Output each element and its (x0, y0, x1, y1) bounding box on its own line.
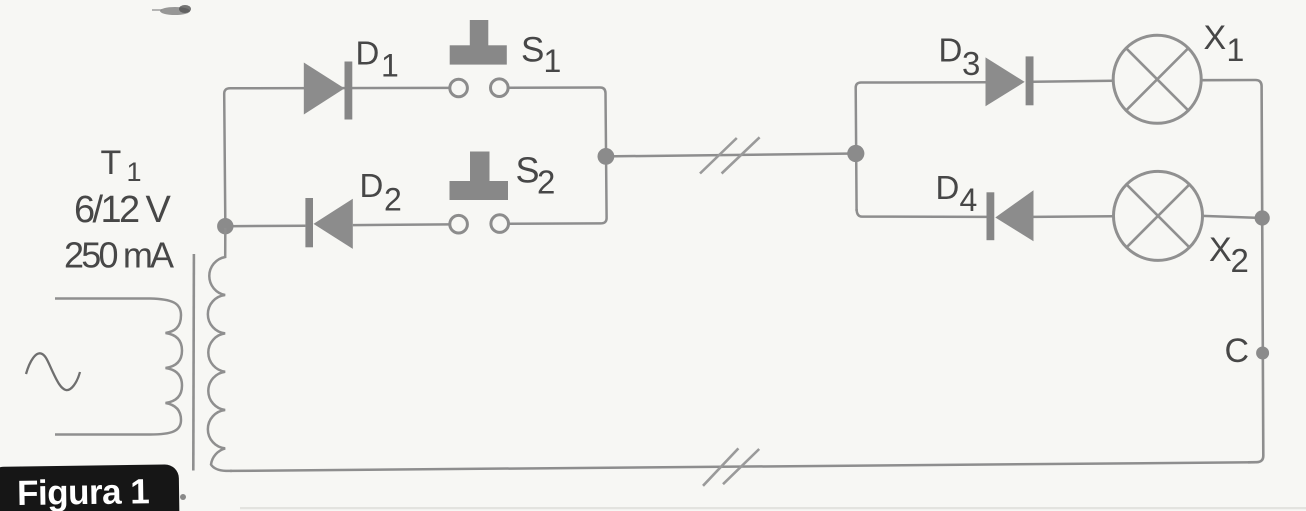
scan speck near badge (180, 494, 186, 500)
switch S1 contacts (450, 79, 508, 97)
node C terminal (1256, 347, 1269, 360)
cable break marks top (700, 137, 760, 173)
transformer core (192, 254, 195, 471)
label S2 (516, 150, 556, 201)
wire: lamp X2 to right rail junction (1203, 216, 1263, 218)
label X2 (1209, 231, 1249, 279)
node: line to lamps junction (847, 145, 864, 162)
label T1 (101, 144, 142, 187)
diode D1 (304, 62, 353, 120)
label D1 (356, 35, 399, 84)
svg-text:X: X (1209, 231, 1232, 269)
svg-text:6/12 V: 6/12 V (74, 189, 172, 231)
svg-text:1: 1 (127, 157, 142, 187)
cable break marks bottom (703, 448, 759, 485)
svg-text:D: D (939, 32, 963, 69)
wire: S1 right contact, right vertical of switch loop, S2 right side (509, 87, 607, 223)
svg-text:1: 1 (544, 43, 562, 79)
svg-text:D: D (360, 167, 384, 204)
AC sine symbol (26, 353, 80, 390)
node: switch output junction (598, 148, 615, 165)
wire: bottom rail with cable break (230, 462, 1256, 471)
svg-text:C: C (1225, 332, 1250, 370)
diode D3 (986, 56, 1034, 106)
wire: D2 anode to S2 left contact (353, 223, 450, 226)
label S1 (521, 31, 561, 80)
svg-text:X: X (1204, 19, 1227, 57)
switch S2 contacts (450, 215, 509, 233)
wire: junction to D2 cathode (225, 224, 305, 227)
transformer secondary winding (208, 228, 232, 471)
label D3 (939, 32, 981, 83)
svg-text:D: D (936, 169, 960, 206)
wire: secondary top vertical and top rail to S1 left contact (224, 88, 449, 222)
switch S1 button (450, 20, 507, 65)
label D2 (360, 167, 402, 218)
label X1 (1204, 19, 1245, 68)
svg-text:1: 1 (1227, 32, 1245, 68)
svg-text:4: 4 (960, 182, 978, 218)
wire: lamp X1 to right rail and right vertical rail down to bottom (1201, 80, 1263, 462)
node: X2 to rail junction (1255, 210, 1270, 225)
bottom scan edge streak (240, 507, 1306, 509)
diode D2 (305, 198, 352, 249)
lamp X1 (1113, 35, 1201, 123)
svg-text:3: 3 (962, 45, 980, 82)
diode D4 (987, 190, 1034, 241)
wire: D-column vertical and stub to D3 (856, 82, 986, 211)
switch S2 button (450, 152, 509, 201)
svg-text:Figura 1: Figura 1 (17, 472, 150, 511)
wire: D-column bottom corner to D4 cathode (857, 209, 987, 217)
wire: D4 anode to lamp X2 (1034, 215, 1114, 218)
node: secondary tap junction (217, 218, 233, 234)
lamp X2 (1114, 171, 1203, 260)
scan smudge artifact top (152, 5, 191, 15)
svg-text:S: S (521, 31, 544, 70)
svg-text:D: D (356, 35, 380, 72)
svg-text:T: T (101, 144, 122, 182)
svg-text:2: 2 (537, 164, 555, 201)
svg-text:S: S (516, 150, 540, 191)
label D4 (936, 169, 978, 218)
wire: D3 cathode to lamp X1 (1034, 81, 1114, 82)
svg-text:2: 2 (1231, 242, 1249, 279)
wire: middle link with cable break (606, 154, 856, 157)
svg-text:2: 2 (384, 182, 402, 218)
svg-text:1: 1 (381, 48, 399, 84)
svg-text:250 mA: 250 mA (64, 235, 174, 276)
transformer T1 primary winding (55, 299, 182, 435)
Figura 1 badge (0, 464, 180, 511)
